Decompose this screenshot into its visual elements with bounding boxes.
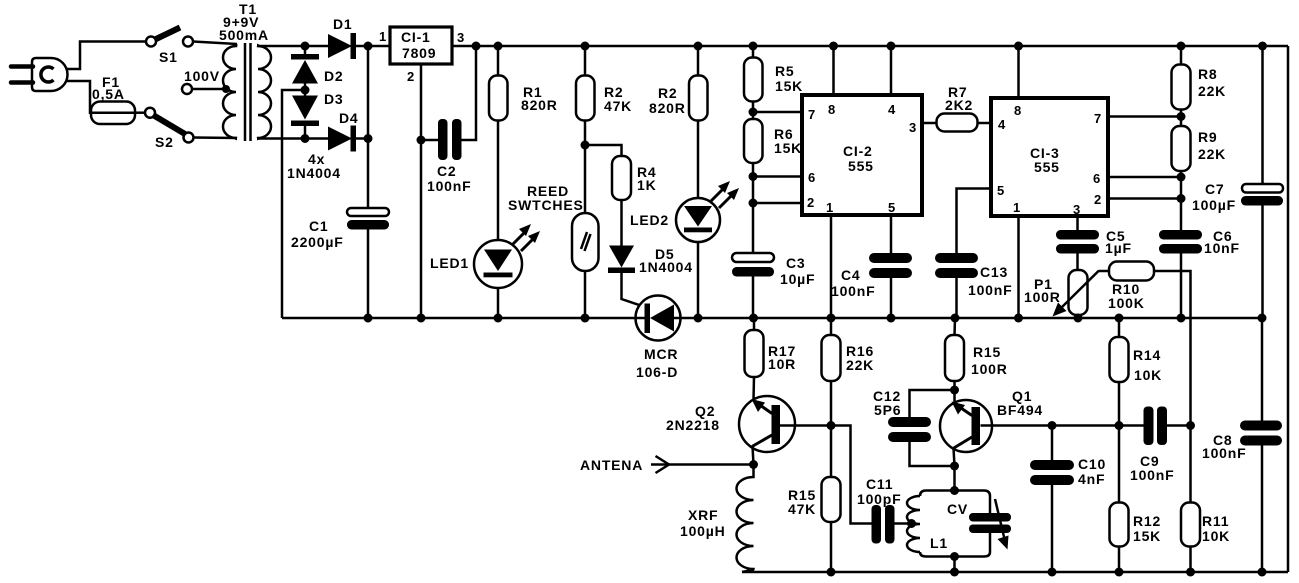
node R12 junction (1115, 421, 1124, 430)
node R11 bottom rail (1186, 568, 1195, 577)
wire D5 to SCR gate (622, 273, 646, 307)
wire R1 column (497, 46, 500, 240)
svg-text:C7: C7 (1205, 181, 1225, 197)
wire mid rail left of SCR (282, 317, 636, 320)
node C4 rail (887, 314, 896, 323)
tank circuit bottom wire (920, 533, 990, 557)
wire plug to S1 (67, 42, 146, 70)
switch S1 (146, 28, 193, 66)
diode D1 (328, 16, 356, 59)
diode D4 (328, 110, 359, 152)
node antenna tap (749, 460, 758, 469)
svg-text:0,5A: 0,5A (92, 86, 125, 102)
svg-text:1N4004: 1N4004 (287, 165, 341, 181)
node rectifier top (301, 42, 310, 51)
wire pin1 CI-3 (1017, 216, 1020, 318)
svg-text:LED1: LED1 (430, 255, 469, 271)
svg-text:5P6: 5P6 (874, 402, 901, 418)
svg-text:1K: 1K (637, 177, 657, 193)
diode D3 (291, 90, 344, 139)
LED1 (430, 240, 522, 318)
variable capacitor CV (947, 499, 1011, 550)
resistor R16 (822, 318, 875, 426)
fuse F1 (91, 74, 135, 124)
svg-text:15K: 15K (775, 78, 803, 94)
node R15 bottom rail (827, 568, 836, 577)
svg-text:L1: L1 (930, 535, 948, 551)
svg-text:C10: C10 (1078, 456, 1106, 472)
resistor R11 (1181, 426, 1230, 573)
node CI-3 gnd rail (1014, 314, 1023, 323)
node R14 rail (1115, 314, 1124, 323)
svg-text:1N4004: 1N4004 (639, 259, 693, 275)
antenna arrow (580, 456, 754, 473)
wire pin2 (753, 202, 802, 205)
wire secondary top to D1 (258, 45, 328, 48)
svg-text:47K: 47K (788, 501, 816, 517)
capacitor C2 (421, 46, 476, 194)
wire pin4 (890, 46, 893, 95)
resistor R2 820R (649, 76, 708, 121)
wire D1 to CI-1 (356, 45, 390, 48)
node R16 rail (827, 314, 836, 323)
svg-text:3: 3 (1073, 202, 1081, 217)
svg-text:D1: D1 (333, 16, 353, 32)
svg-text:LED2: LED2 (630, 212, 669, 228)
node pin8 top (829, 42, 838, 51)
svg-text:6: 6 (808, 170, 816, 185)
wire R4 to D5 (620, 200, 623, 246)
node C2 top (472, 42, 481, 51)
wire R2b column (697, 46, 700, 199)
IC CI-2 555 (802, 95, 922, 215)
svg-text:4: 4 (888, 102, 896, 117)
node pin2 branch (749, 199, 758, 208)
svg-text:2: 2 (1094, 192, 1102, 207)
svg-text:MCR: MCR (644, 346, 678, 362)
tank circuit top wire (920, 491, 990, 514)
node D4 out (364, 134, 373, 143)
node LED1 rail (494, 314, 503, 323)
wire pin6 (753, 175, 802, 178)
svg-text:820R: 820R (649, 100, 686, 116)
resistor R1 (489, 76, 558, 121)
node pin7 branch (749, 108, 758, 117)
wire R5 R6 C3 column (752, 46, 755, 253)
wire tank to rail (953, 557, 956, 573)
capacitor C11 (831, 426, 912, 544)
capacitor C6 (1159, 228, 1240, 318)
svg-text:100µF: 100µF (1192, 197, 1236, 213)
svg-text:2: 2 (807, 195, 815, 210)
wire Q1 base to C9 (1052, 424, 1144, 427)
wire top supply rail (452, 45, 1288, 48)
svg-text:15K: 15K (774, 140, 802, 156)
resistor R7 (937, 84, 978, 132)
svg-text:XRF: XRF (688, 507, 718, 523)
svg-text:C3: C3 (786, 255, 806, 271)
resistor R6 (744, 119, 802, 163)
svg-text:BF494: BF494 (997, 402, 1043, 418)
potentiometer P1 (1024, 270, 1099, 318)
node tank bottom rail (950, 568, 959, 577)
wire Q2 base (779, 424, 831, 427)
svg-text:3: 3 (909, 120, 917, 135)
node R8 top (1177, 42, 1186, 51)
wire S2 to T1 (194, 136, 238, 139)
svg-text:2K2: 2K2 (945, 97, 973, 113)
node C7 top (1258, 42, 1267, 51)
svg-text:7: 7 (808, 107, 816, 122)
wire tap to winding (192, 88, 226, 91)
node tap junction (222, 85, 230, 93)
svg-text:CI-1: CI-1 (401, 29, 431, 45)
node pin6 branch (749, 172, 758, 181)
svg-text:10R: 10R (768, 356, 796, 372)
wire mid rail right of SCR (680, 317, 1262, 320)
svg-text:4: 4 (998, 117, 1006, 132)
resistor R2 47K (576, 76, 632, 121)
node pin7 junction (1177, 112, 1186, 121)
node pin4 top (887, 42, 896, 51)
resistor R9 (1172, 126, 1227, 171)
svg-text:D2: D2 (324, 68, 344, 84)
switch S2 (145, 108, 194, 150)
wire pin3 CI-2 (922, 122, 937, 125)
node rectifier out top (364, 42, 373, 51)
svg-text:S2: S2 (155, 134, 174, 150)
node LED2 rail (694, 314, 703, 323)
transformer T1 primary winding (223, 44, 237, 139)
svg-text:15K: 15K (1133, 528, 1161, 544)
wire R4 branch (585, 145, 622, 156)
node R15b top rail (951, 314, 960, 323)
node pin8 CI-3 top (1014, 42, 1023, 51)
wire R17 to Q2 emitter (752, 377, 755, 400)
svg-text:5: 5 (997, 183, 1005, 198)
resistor R15 47K (788, 426, 841, 573)
resistor R15 100R (945, 318, 1008, 390)
wire S1 to T1 (193, 42, 237, 45)
svg-text:D4: D4 (339, 110, 359, 126)
svg-text:R8: R8 (1198, 66, 1218, 82)
wire pin5 CI-2 (890, 215, 893, 253)
capacitor C9 (1130, 407, 1191, 484)
node tank top (950, 486, 959, 495)
transformer T1 secondary winding (257, 45, 271, 139)
capacitor C5 (1056, 228, 1132, 270)
svg-text:100pF: 100pF (857, 491, 901, 507)
node rectifier bottom (301, 134, 310, 143)
capacitor C12 (873, 388, 955, 466)
svg-text:R2: R2 (658, 85, 678, 101)
svg-text:555: 555 (848, 158, 874, 174)
wire pin7 (753, 111, 802, 114)
IC CI-3 555 (991, 98, 1108, 217)
wire pin7 CI-3 (1108, 115, 1181, 118)
svg-text:2: 2 (407, 69, 415, 84)
LED1 arrows (513, 224, 540, 251)
transformer T1 core (245, 43, 251, 141)
wire R8 R9 C6 column (1180, 46, 1183, 230)
svg-text:100nF: 100nF (427, 178, 471, 194)
svg-text:100R: 100R (971, 361, 1008, 377)
node reed rail (581, 314, 590, 323)
svg-text:100nF: 100nF (831, 283, 875, 299)
svg-text:CI-2: CI-2 (843, 143, 873, 159)
capacitor C10 (1030, 426, 1106, 573)
svg-text:ANTENA: ANTENA (580, 457, 643, 473)
wire bottom rail (742, 571, 1288, 574)
svg-text:47K: 47K (604, 98, 632, 114)
capacitor C8 (1202, 318, 1282, 572)
svg-text:100V: 100V (184, 68, 220, 84)
wire pin6 CI-3 (1108, 176, 1181, 179)
wire D4 to C1 column (356, 137, 368, 140)
node R11 junction (1186, 421, 1195, 430)
SCR MCR106-D (636, 296, 682, 381)
regulator CI-1 (379, 27, 465, 84)
wire collector to tank (953, 466, 956, 491)
svg-text:100nF: 100nF (1130, 467, 1174, 483)
svg-text:C13: C13 (980, 264, 1008, 280)
resistor R17 (745, 318, 797, 377)
svg-text:4nF: 4nF (1078, 471, 1105, 487)
LED2 (630, 198, 720, 318)
diode D5 (608, 246, 693, 276)
svg-text:8: 8 (1014, 103, 1022, 118)
svg-text:C4: C4 (841, 267, 861, 283)
node pin6 junction (1177, 173, 1186, 182)
transistor Q1 (940, 388, 1043, 466)
resistor R5 (744, 58, 803, 102)
reed switch (508, 183, 599, 318)
svg-text:R11: R11 (1202, 513, 1229, 529)
resistor R12 (1110, 426, 1162, 573)
wire R10 to R11 leg (1154, 271, 1191, 426)
wire plug to F1 (67, 81, 92, 113)
svg-text:22K: 22K (1198, 83, 1226, 99)
node R5 top (749, 42, 758, 51)
AC plug (11, 58, 68, 91)
LED2 arrows (711, 181, 739, 208)
svg-text:6: 6 (1093, 171, 1101, 186)
svg-text:106-D: 106-D (636, 364, 678, 380)
diode D2 (291, 46, 344, 90)
capacitor C4 (831, 253, 912, 318)
wire right edge (1287, 46, 1290, 572)
svg-text:100µH: 100µH (680, 523, 726, 539)
node P1 rail (1074, 314, 1083, 323)
svg-text:D3: D3 (324, 91, 344, 107)
svg-text:22K: 22K (846, 357, 874, 373)
wire R7 to CI-3 pin4 (978, 122, 992, 125)
svg-text:CV: CV (947, 501, 968, 517)
resistor R10 (1099, 262, 1154, 312)
wire pin2 CI-3 (1108, 197, 1181, 200)
node bridge mid (301, 86, 310, 95)
node R2 top (581, 42, 590, 51)
node L1 tap (907, 519, 916, 528)
inductor L1 (907, 496, 948, 552)
capacitor C7 (1192, 46, 1283, 318)
wire pin1 CI-2 (830, 215, 833, 318)
svg-text:555: 555 (1034, 159, 1060, 175)
node Q1 collector junction (950, 462, 959, 471)
wire bridge mid to ground rail (282, 90, 305, 318)
svg-text:S1: S1 (159, 49, 178, 65)
node C10 bottom rail (1048, 568, 1057, 577)
resistor R4 (612, 156, 657, 200)
wire CI-1 pin2 ground column (420, 64, 423, 318)
svg-text:500mA: 500mA (219, 27, 269, 43)
svg-text:C11: C11 (866, 476, 893, 492)
node R1 top (494, 42, 503, 51)
svg-text:2N2218: 2N2218 (666, 417, 720, 433)
svg-text:3: 3 (457, 30, 465, 45)
svg-text:100nF: 100nF (1202, 445, 1246, 461)
resistor R14 (1110, 318, 1163, 426)
svg-text:10µF: 10µF (780, 271, 815, 287)
capacitor C1 (291, 208, 389, 318)
wire DC+ column (367, 46, 370, 208)
svg-text:SWTCHES: SWTCHES (508, 197, 584, 213)
svg-text:R15: R15 (973, 344, 1001, 360)
svg-text:100nF: 100nF (968, 282, 1012, 298)
svg-text:10K: 10K (1134, 367, 1162, 383)
svg-text:R14: R14 (1133, 347, 1161, 363)
wire R2 column (584, 46, 587, 213)
svg-text:10K: 10K (1202, 528, 1230, 544)
svg-text:R5: R5 (775, 63, 795, 79)
node CI-1 gnd rail (417, 314, 426, 323)
inductor XRF (680, 465, 754, 573)
svg-text:R12: R12 (1133, 513, 1161, 529)
svg-text:22K: 22K (1198, 146, 1226, 162)
resistor R8 (1172, 65, 1227, 110)
wire pin3 CI-3 (1076, 216, 1079, 230)
node pin2 junction (1177, 194, 1186, 203)
node tank bottom (950, 552, 959, 561)
svg-text:1: 1 (379, 29, 387, 44)
svg-text:10nF: 10nF (1204, 240, 1240, 256)
svg-text:7809: 7809 (402, 45, 436, 61)
100V tap terminal (182, 68, 220, 94)
wire Q1 base (981, 424, 1053, 427)
node C10 top (1048, 421, 1057, 430)
wire pin8 (832, 46, 835, 95)
node C1 rail (364, 314, 373, 323)
wire fuse to S2 (135, 111, 145, 114)
node R2b top (694, 42, 703, 51)
svg-text:1µF: 1µF (1105, 240, 1132, 256)
svg-text:1: 1 (826, 200, 834, 215)
svg-text:C2: C2 (437, 163, 457, 179)
node R12 bottom rail (1115, 568, 1124, 577)
svg-text:C1: C1 (309, 218, 329, 234)
node C7 C8 rail (1258, 314, 1267, 323)
node C2 branch (417, 136, 426, 145)
wire secondary bottom to D4 (258, 137, 328, 140)
svg-text:R9: R9 (1198, 129, 1218, 145)
svg-text:2200µF: 2200µF (291, 234, 344, 250)
node Q1 emitter junction (950, 386, 959, 395)
svg-text:820R: 820R (521, 97, 558, 113)
node C6 rail (1177, 314, 1186, 323)
capacitor C3 (732, 253, 815, 318)
wire pin8 CI-3 (1017, 46, 1020, 98)
svg-text:7: 7 (1094, 111, 1102, 126)
node R4 branch (581, 141, 590, 150)
capacitor C13 (935, 189, 1012, 319)
transistor Q2 (666, 396, 795, 465)
svg-text:100K: 100K (1108, 295, 1145, 311)
svg-text:1: 1 (1013, 200, 1021, 215)
node Q2 base junction (827, 421, 836, 430)
svg-text:5: 5 (888, 200, 896, 215)
svg-text:100R: 100R (1024, 289, 1061, 305)
svg-text:8: 8 (828, 102, 836, 117)
node C3 R17 rail (749, 314, 758, 323)
node C8 bottom rail (1258, 568, 1267, 577)
